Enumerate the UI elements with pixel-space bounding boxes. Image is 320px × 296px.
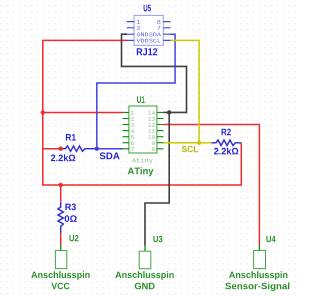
label Anschlusspin (GND): [115, 271, 173, 280]
node red: bus / R3 tap: [59, 183, 63, 187]
net label SDA: [100, 152, 120, 159]
label GND: [135, 283, 155, 290]
wire red: left rail to R1 left terminal: [43, 148, 61, 150]
U1 pin number 13: [148, 117, 154, 121]
wire black GND: pin14 node down to U3 pin: [145, 112, 169, 245]
node red: R1 left terminal: [59, 147, 63, 151]
U1 pins left 1-7: [123, 112, 129, 148]
RJ12 pin label SCL: [149, 39, 160, 43]
net label SCL: [182, 146, 199, 152]
node blue: SDA junction: [95, 147, 99, 151]
label Anschlusspin (VCC): [31, 271, 89, 280]
label R1: [66, 134, 76, 141]
U1 internal name Atiny: [132, 158, 153, 164]
U1 pins right 14-8: [157, 112, 164, 148]
wire yellow SCL: U1 pin9 to R2 left terminal: [163, 142, 211, 144]
label U1: [137, 96, 145, 103]
wire red: R3 bottom terminal to U2 pin: [60, 233, 62, 245]
label U3: [153, 236, 162, 242]
resistor R2: [212, 140, 242, 146]
U1 pin number 11: [148, 129, 155, 133]
U1 pin number 8: [152, 147, 155, 151]
RJ12 pin label GND: [137, 33, 148, 37]
node red: left rail / U1 pin1 tap: [41, 110, 45, 114]
wire black GND: RJ12 GND pin around to U1 pin14: [122, 34, 187, 112]
U1 pin number 2: [131, 117, 134, 121]
label RJ12: [137, 48, 158, 55]
wire blue SDA: RJ12 SDA pin down-left to SDA node: [97, 34, 175, 149]
connector U5 RJ12 body: [134, 15, 163, 45]
resistor R3: [58, 202, 64, 233]
wire yellow SCL: RJ12 SCL pin down to SCL node: [171, 40, 200, 142]
wire red: left rail to U1 pin1: [43, 112, 123, 114]
label U4: [266, 236, 275, 242]
resistor R1: [61, 146, 97, 152]
RJ12 pins left (1,2,GND,VDD): [127, 22, 134, 41]
RJ12 pin label VDD: [137, 39, 149, 43]
wire VCC red: RJ12 VDD pin to left rail, bottom bus, up to R2 right terminal: [43, 40, 242, 185]
wire red: bus to R3 top terminal: [60, 185, 62, 202]
wire blue SDA: node to U1 pin7: [97, 148, 123, 150]
U1 pin number 9: [152, 141, 155, 145]
node yellow: SCL junction: [197, 141, 201, 145]
U1 pin number 5: [131, 135, 134, 139]
label ATiny: [128, 167, 154, 176]
label VCC: [51, 283, 69, 290]
label R2: [222, 129, 231, 136]
U1 pin number 6: [131, 141, 134, 145]
RJ12 pin label 8: [157, 20, 160, 24]
RJ12 pin label 2: [137, 26, 140, 30]
label R2 value 2.2kOhm: [214, 148, 238, 155]
label R3: [65, 204, 76, 211]
connector U4 (Anschlusspin Sensor-Signal): [258, 245, 260, 251]
label R1 value 2.2kOhm: [51, 154, 75, 161]
label Sensor-Signal: [225, 283, 289, 292]
RJ12 pin label 1: [137, 20, 140, 24]
U1 pin number 4: [131, 129, 134, 133]
U1 pin number 12: [148, 123, 154, 127]
U1 pin number 7: [131, 147, 134, 151]
U1 pin number 3: [131, 123, 134, 127]
connector U2 (Anschlusspin VCC): [60, 245, 62, 251]
U1 pin number 14: [148, 111, 155, 115]
connector U3 (Anschlusspin GND): [144, 246, 146, 251]
RJ12 pins right (8,7,SDA,SCL): [163, 22, 170, 41]
node black: GND junction at U1 pin14: [167, 110, 171, 114]
label R3 value 0 Ohm: [65, 215, 77, 222]
label U2: [69, 235, 78, 241]
label U5: [144, 5, 151, 12]
U1 pin number 10: [148, 135, 154, 139]
wire red Sensor-Signal: U1 pin12 to U4 pin: [163, 125, 259, 246]
U1 pin number 1: [131, 111, 134, 115]
IC U1 ATiny body: [129, 106, 157, 153]
RJ12 pin label 7: [157, 26, 160, 30]
RJ12 pin label SDA: [149, 33, 161, 37]
label Anschlusspin (Sensor): [229, 271, 287, 280]
